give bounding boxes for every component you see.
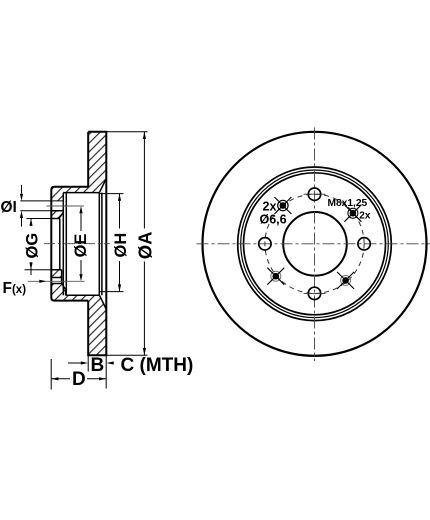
svg-text:B: B bbox=[91, 355, 105, 376]
svg-text:Ø6,6: Ø6,6 bbox=[260, 212, 287, 226]
svg-text:ØA: ØA bbox=[135, 232, 156, 260]
svg-text:ØG: ØG bbox=[23, 233, 41, 259]
svg-text:ØE: ØE bbox=[72, 234, 90, 258]
svg-text:M8x1,25: M8x1,25 bbox=[328, 198, 368, 209]
svg-text:2x: 2x bbox=[359, 211, 371, 222]
svg-text:ØI: ØI bbox=[1, 199, 17, 216]
svg-text:ØH: ØH bbox=[112, 233, 130, 258]
svg-text:D: D bbox=[72, 369, 86, 390]
svg-text:C (MTH): C (MTH) bbox=[121, 355, 194, 376]
